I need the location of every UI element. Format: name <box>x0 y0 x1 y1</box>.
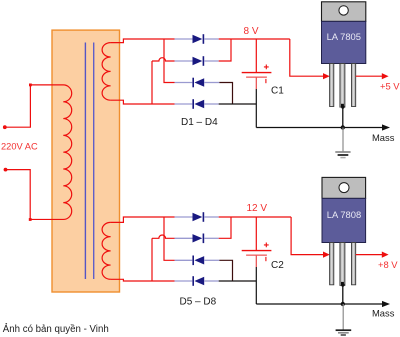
wire secondary1 top tap <box>111 39 175 43</box>
regulator U1 pin 2 tip <box>341 104 344 108</box>
wire D2 cathode up <box>219 39 231 61</box>
wire D5 cathode to 12V node <box>219 216 291 218</box>
wire D4 anode to negative rail <box>219 103 257 105</box>
diode D7 <box>175 256 220 266</box>
diode D2 <box>175 56 219 66</box>
regulator U2 tab <box>322 177 366 198</box>
svg-text:LA 7805: LA 7805 <box>327 31 361 42</box>
diode D5 <box>175 212 219 222</box>
wire D1 cathode to 8V node <box>219 38 290 40</box>
diode D1 <box>175 34 219 44</box>
wire D3 anode dark <box>219 83 232 105</box>
transformer T1 body <box>52 30 120 292</box>
svg-text:C1: C1 <box>271 85 284 96</box>
capacitor C1 positive lead <box>255 39 257 72</box>
wire negative rail 2 down <box>255 267 257 304</box>
svg-text:C2: C2 <box>271 260 284 271</box>
regulator U2 pin 2 <box>340 243 345 286</box>
input terminal top <box>3 125 7 129</box>
regulator U2 mounting hole <box>339 183 349 193</box>
transformer core line right <box>93 43 95 280</box>
svg-text:8 V: 8 V <box>244 26 259 37</box>
secondary winding 2 <box>102 222 111 279</box>
diode D8 <box>175 276 219 286</box>
regulator U1 pin 1 <box>330 64 334 107</box>
arrowhead mass 2 <box>382 301 390 307</box>
capacitor C2 positive lead <box>255 217 257 250</box>
ground symbol 1 <box>335 128 350 158</box>
wire U1 output <box>356 75 383 77</box>
junction dot pin2 <box>341 105 344 108</box>
arrowhead mass 1 <box>382 124 390 130</box>
wire D7 anode dark <box>219 260 232 281</box>
mass rail 1 <box>256 127 383 129</box>
diode D6 <box>175 234 219 244</box>
svg-text:D1 – D4: D1 – D4 <box>181 117 218 128</box>
arrowhead into U1 input <box>323 73 330 79</box>
regulator U2 body <box>322 198 366 242</box>
wire D8 anode to negative rail <box>219 280 257 282</box>
wire D6 cathode up <box>219 217 231 238</box>
wire U2 output <box>356 254 383 256</box>
wire secondary2 top tap <box>111 217 175 222</box>
regulator U1 mounting hole <box>339 6 348 15</box>
capacitor C1 top plate <box>242 72 272 74</box>
svg-text:Mass: Mass <box>372 132 395 143</box>
mass rail 2 <box>256 303 383 305</box>
svg-text:Mass: Mass <box>372 308 395 319</box>
svg-text:D5 – D8: D5 – D8 <box>180 297 217 308</box>
diode D3 <box>175 78 220 88</box>
wire node AC2 to D2 with hop over <box>152 58 175 61</box>
wire node AC1 to D3 (vertical) <box>164 39 175 83</box>
regulator U2 pin 3 <box>352 243 356 285</box>
regulator U1 pin 3 <box>352 64 356 107</box>
wire secondary2 bottom tap <box>111 279 175 281</box>
capacitor C1 minus tick <box>265 79 267 83</box>
wire 8V node to regulator input <box>290 39 324 76</box>
diode D4 <box>175 99 219 109</box>
svg-text:220V AC: 220V AC <box>1 142 38 152</box>
regulator U1 body <box>322 21 366 63</box>
wire vertical AC2 <box>151 61 153 104</box>
wire vertical AC4 <box>151 238 153 281</box>
primary winding with 220V AC input wires <box>5 85 72 220</box>
regulator U2 pin 2 tip <box>341 282 344 286</box>
wire 12V node to regulator input <box>291 217 323 255</box>
regulator U1 tab <box>322 2 366 22</box>
junction dot top corner <box>29 84 32 87</box>
wire negative rail down <box>255 89 257 128</box>
ground symbol 2 <box>336 304 352 335</box>
capacitor C2 negative lead <box>255 255 257 267</box>
input terminal bottom <box>4 168 8 172</box>
regulator U2 pin 1 <box>330 243 334 285</box>
regulator U1 pin 2 <box>340 64 345 108</box>
arrowhead +8V <box>382 252 389 258</box>
wire pin2 to mass 2 <box>342 285 344 304</box>
wire secondary1 bottom tap <box>111 100 175 104</box>
capacitor C1 negative lead <box>255 77 257 89</box>
junction dot bottom corner <box>29 218 32 221</box>
wire node AC3 to D7 (vertical) <box>164 217 175 260</box>
secondary winding 1 <box>102 43 111 101</box>
junction dot mass 1 <box>341 125 345 129</box>
svg-text:12 V: 12 V <box>247 203 268 214</box>
capacitor C1 bottom plate <box>246 76 267 78</box>
svg-text:Ảnh có bản quyền - Vinh: Ảnh có bản quyền - Vinh <box>3 323 109 335</box>
capacitor C1 plus sign <box>264 65 269 70</box>
capacitor C2 bottom plate <box>246 254 267 256</box>
capacitor C2 plus sign <box>264 243 269 248</box>
svg-text:LA 7808: LA 7808 <box>327 209 361 220</box>
junction dot mass 2 <box>341 302 345 306</box>
wire pin2 to mass <box>342 107 344 128</box>
transformer core line left <box>84 43 86 280</box>
svg-text:+5 V: +5 V <box>380 81 400 92</box>
arrowhead into U2 input <box>323 252 330 258</box>
capacitor C2 top plate <box>242 250 272 252</box>
arrowhead +5V <box>382 73 389 79</box>
junction dot pin2 U2 <box>341 283 344 286</box>
capacitor C2 minus tick <box>265 257 267 261</box>
wire node AC4 to D6 with hop over <box>152 235 175 238</box>
svg-text:+8 V: +8 V <box>378 259 398 270</box>
